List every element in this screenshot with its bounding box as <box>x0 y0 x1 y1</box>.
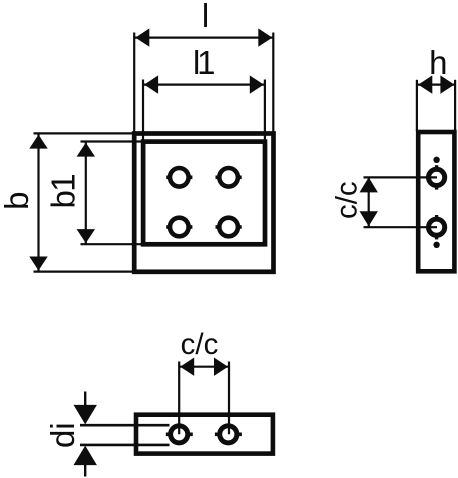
arrowhead b1 bottom <box>77 229 95 243</box>
hole tick marks side <box>435 165 438 239</box>
hole side top <box>429 169 445 185</box>
center dot above top side hole <box>433 157 439 163</box>
arrowhead l right <box>258 28 272 46</box>
arrowhead b bottom <box>29 257 47 271</box>
arrowhead c/c bottom-view left <box>180 358 194 376</box>
svg-text:di: di <box>44 422 81 448</box>
arrowhead l1 right <box>250 75 264 93</box>
dimension c/c bottom extension lines <box>178 362 180 435</box>
hole front top-right <box>219 168 238 187</box>
dimension b extension lines <box>34 132 134 134</box>
dimension l extension lines <box>133 33 135 134</box>
arrowhead b top <box>29 135 47 149</box>
dimension b1 line <box>85 142 87 245</box>
front view inner square <box>143 142 265 245</box>
arrowhead di top <box>74 405 97 425</box>
hole bottom-view left <box>171 426 188 443</box>
dimension di extension lines <box>80 424 170 427</box>
hole tick marks front <box>166 177 242 227</box>
hole tick marks bottom view <box>166 432 242 436</box>
svg-text:l: l <box>202 0 209 34</box>
dimension l line <box>134 36 273 38</box>
dimension di arrow stubs <box>84 392 86 407</box>
hole bottom-view right <box>220 426 237 443</box>
dimension c/c side line <box>368 177 370 227</box>
arrowhead l1 left <box>144 75 158 93</box>
dimension b line <box>37 133 39 271</box>
arrowhead di bottom <box>74 446 97 466</box>
svg-text:b: b <box>0 192 35 210</box>
svg-text:c/c: c/c <box>181 328 219 361</box>
dimension b1 extension lines <box>81 140 143 142</box>
side view plate <box>418 132 454 271</box>
dimension l1 extension lines <box>142 80 144 141</box>
dimension c/c bottom line <box>179 366 229 368</box>
arrowhead c/c side bottom <box>360 211 378 226</box>
dimension h line <box>417 83 455 85</box>
dimension c/c side extension lines <box>364 176 438 178</box>
dimension l1 line <box>143 83 265 85</box>
svg-text:h: h <box>429 44 447 81</box>
hole side bottom <box>429 219 445 235</box>
arrowhead h left <box>418 75 432 93</box>
svg-text:b1: b1 <box>45 175 82 209</box>
hole front top-left <box>170 168 189 187</box>
arrowhead l left <box>135 28 149 46</box>
bottom view plate <box>136 415 273 454</box>
arrowhead h right <box>440 75 454 93</box>
arrowhead c/c bottom-view right <box>214 358 228 376</box>
front view outer plate <box>134 134 273 272</box>
svg-text:l1: l1 <box>193 44 214 81</box>
svg-text:c/c: c/c <box>330 181 363 219</box>
hole front bottom-left <box>170 218 189 237</box>
hole front bottom-right <box>219 218 238 237</box>
arrowhead b1 top <box>77 143 95 157</box>
arrowhead c/c side top <box>360 177 378 192</box>
dimension h extension lines <box>416 80 418 131</box>
center dot below bottom side hole <box>433 242 439 248</box>
